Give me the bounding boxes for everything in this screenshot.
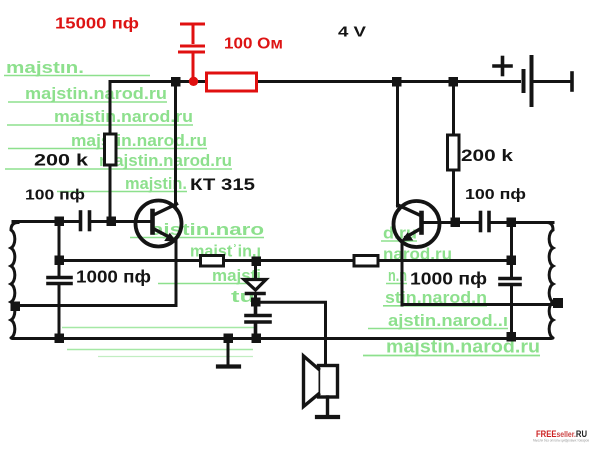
wire emitter drop Q1: [175, 241, 178, 306]
diode D1: [244, 261, 266, 302]
node junction coil tap right: [553, 298, 563, 308]
watermark line 8 right narod.ru: [383, 245, 452, 264]
ground G1: [218, 339, 239, 367]
svg-text:100 пф: 100 пф: [465, 186, 526, 203]
wire mid rail: [59, 259, 511, 262]
battery B1 plates: [524, 57, 573, 105]
resistor R1 200k left: [105, 134, 117, 165]
wire collector riser Q2: [396, 82, 399, 207]
watermark line 9 right n.n: [386, 266, 407, 285]
svg-text:majstin.narod.ru: majstin.narod.ru: [71, 131, 207, 150]
transistor Q2: [394, 201, 440, 247]
watermark line 10 left tu: [231, 287, 255, 306]
svg-text:200 k: 200 k: [34, 152, 89, 170]
node junction ground tap: [224, 334, 234, 344]
svg-text:100 пф: 100 пф: [25, 187, 85, 204]
wire to speaker: [256, 302, 326, 365]
ground G2 below speaker: [317, 415, 338, 419]
svg-text:15000 пф: 15000 пф: [55, 16, 139, 33]
svg-text:1000 пф: 1000 пф: [410, 269, 487, 289]
svg-text:200 k: 200 k: [461, 147, 514, 165]
capacitor C1 15000pf antenna: [178, 24, 205, 78]
wire base line right a: [424, 221, 480, 224]
node junction mid left cap: [55, 256, 65, 266]
red input network: [178, 24, 257, 91]
capacitor C5 100pf right plates: [481, 213, 490, 231]
wire top rail right segment: [256, 80, 520, 83]
node junction bottom diode branch: [252, 334, 262, 344]
node junction base left tap: [55, 217, 65, 227]
node junction top Q2 collector: [392, 77, 402, 87]
inductor L1 left coil: [11, 223, 18, 339]
svg-text:majstin.narod.ru: majstin.narod.ru: [99, 151, 232, 170]
svg-text:n.n: n.n: [388, 266, 407, 285]
svg-text:4 V: 4 V: [338, 24, 366, 41]
node red junction dot: [189, 77, 198, 86]
watermark line 1 majstin: [4, 58, 150, 77]
resistor R4 mid right: [354, 256, 378, 267]
battery B1 plus sign: [494, 58, 511, 75]
wire base line left b: [91, 220, 152, 223]
resistor R2 200k right: [448, 135, 460, 170]
watermark line 5 majstin.narod.ru: [5, 151, 232, 170]
wire top rail left segment: [110, 80, 207, 83]
wire base line left: [13, 220, 80, 223]
inductor L2 right coil: [547, 223, 553, 339]
svg-text:КТ 315: КТ 315: [190, 176, 255, 194]
capacitor C3 1000pf left plates: [48, 278, 71, 284]
circuit layer: [11, 57, 573, 417]
watermark line 7 left ajstin.naro: [130, 220, 264, 239]
wire 1000pf right branch lower: [510, 286, 513, 339]
watermark line 4 majstin.narod.ru: [8, 131, 207, 150]
watermark bare underline A: [62, 327, 255, 329]
watermark line 6 majstin.: [57, 174, 187, 193]
svg-text:majstin.: majstin.: [125, 174, 187, 193]
node junction bottom right cap: [507, 332, 517, 342]
wire feedback left: [14, 304, 176, 307]
wire collector riser Q1: [174, 82, 177, 206]
watermark bare underline B: [67, 349, 253, 351]
svg-text:majstin.narod.ru: majstin.narod.ru: [54, 107, 193, 126]
wire emitter drop Q2: [401, 241, 404, 305]
watermark line 11 ajstin.narod..i: [368, 311, 508, 330]
node junction top Q1: [171, 77, 181, 87]
svg-text:1000 пф: 1000 пф: [76, 267, 151, 287]
watermark line 12 majstin.narod.ru: [363, 337, 540, 357]
node junction bias to base left: [107, 217, 117, 227]
svg-text:majstın.: majstın.: [6, 58, 84, 77]
wire 1000pf right branch upper: [510, 223, 513, 278]
capacitor C6 1000pf right plates: [500, 279, 520, 285]
node junction top Q2 bias: [449, 77, 459, 87]
wire feedback right: [402, 303, 556, 306]
capacitor C4 below diode plates: [246, 305, 270, 339]
capacitor C2 100pf left plates: [81, 212, 90, 230]
watermark line 9 left majsti: [158, 266, 261, 285]
node junction base right bias: [451, 218, 461, 228]
node junction coil tap left: [11, 302, 21, 312]
speaker SP1: [304, 356, 338, 416]
node junction mid diode: [252, 257, 262, 267]
wire bottom rail: [13, 337, 550, 340]
wire left bias rail: [109, 82, 112, 222]
svg-text:Мысли без оплаты цифровых това: Мысли без оплаты цифровых товаров: [533, 439, 589, 443]
svg-text:majstin.narod.ru: majstin.narod.ru: [25, 84, 167, 103]
watermark bare underline C: [98, 356, 253, 358]
wire 1000pf left branch lower: [58, 285, 61, 339]
node junction mid right cap: [507, 256, 517, 266]
node junction bottom left cap: [55, 334, 65, 344]
watermark line 7 right d.ru: [381, 224, 417, 243]
watermark line 2 majstin.narod.ru: [8, 84, 167, 103]
resistor R3 mid left: [201, 256, 224, 267]
watermark line 3 majstin.narod.ru: [7, 107, 193, 126]
svg-text:100 Ом: 100 Ом: [224, 36, 283, 53]
watermark layer: [4, 58, 540, 357]
wire 1000pf left branch upper: [58, 222, 61, 277]
transistor Q1 KT315: [136, 201, 182, 247]
watermark line 8 left majstin: [190, 242, 261, 261]
watermark line 10 right stin.narod.n: [383, 288, 487, 307]
resistor R5 100 Om: [207, 73, 257, 91]
svg-text:ajstin.narod..ı: ajstin.narod..ı: [388, 311, 508, 330]
node junction base right cap branch: [507, 218, 517, 228]
wire bias rail right: [452, 82, 455, 223]
wire base line right b: [491, 221, 554, 224]
node junction below diode: [251, 298, 261, 307]
